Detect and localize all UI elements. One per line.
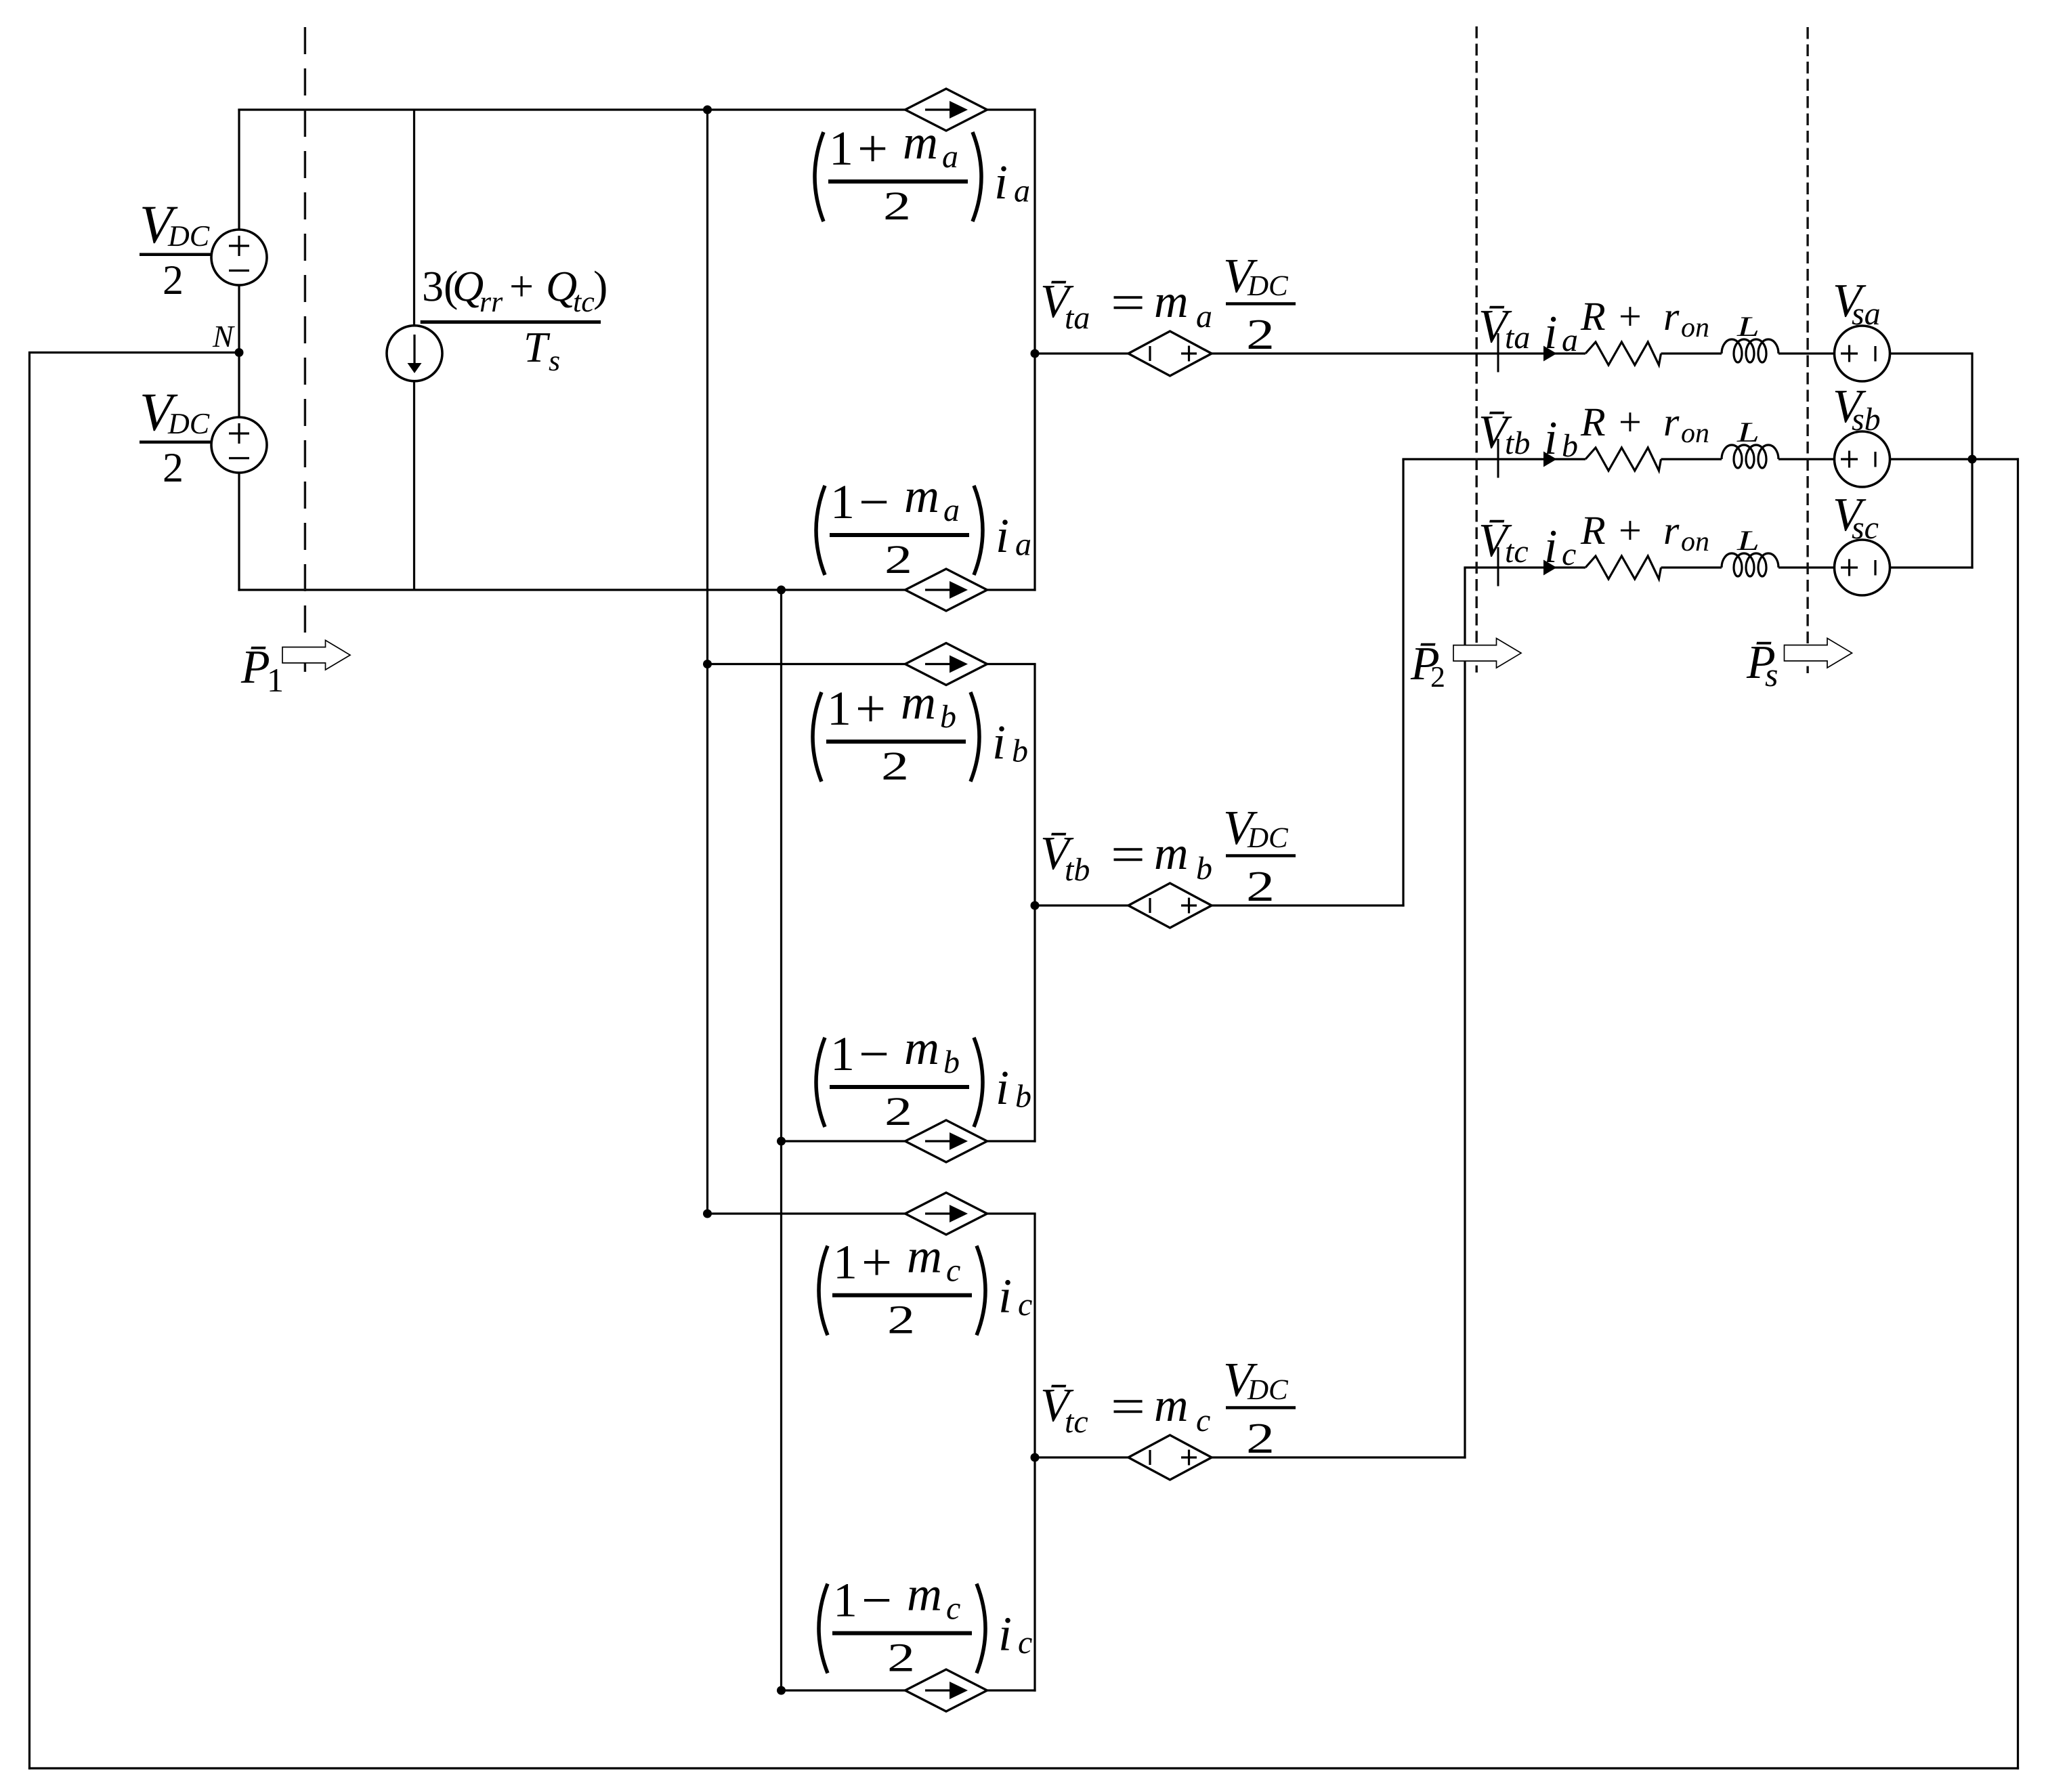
svg-text:−: − <box>859 1025 889 1084</box>
svg-text:2: 2 <box>1246 310 1275 358</box>
dashed boundary line P2 <box>1475 26 1477 673</box>
voltage source VDC/2 lower <box>211 417 267 473</box>
svg-text:m: m <box>904 469 939 523</box>
svg-text:=: = <box>1111 826 1145 883</box>
svg-text:R: R <box>1580 508 1606 553</box>
svg-text:+: + <box>861 1233 892 1293</box>
label P1 <box>240 641 284 699</box>
voltage source Vsc circle <box>1835 540 1890 595</box>
svg-text:on: on <box>1681 526 1709 557</box>
label ib row annotation <box>1544 412 1578 465</box>
svg-text:a: a <box>942 139 958 175</box>
svg-text:2: 2 <box>881 744 909 788</box>
svg-text:L: L <box>1736 417 1760 448</box>
svg-text:a: a <box>1014 173 1030 209</box>
svg-text:−: − <box>859 473 889 532</box>
wire phase-c upper row <box>708 1212 1036 1214</box>
wire outer loop right vertical <box>2017 458 2019 1769</box>
label Vta row annotation <box>1478 301 1530 356</box>
svg-text:r: r <box>1663 508 1680 553</box>
label VDC/2 source 2 <box>140 383 211 491</box>
svg-text:N: N <box>212 319 235 354</box>
dependent voltage source diamond Vtb <box>1128 883 1212 928</box>
svg-text:sc: sc <box>1852 510 1879 546</box>
wire phase-a right leg vertical <box>1033 108 1036 591</box>
svg-text:=: = <box>1111 1378 1145 1435</box>
wire outer loop left vertical <box>28 351 30 1770</box>
junction b-lower row junction dot <box>777 1137 786 1146</box>
svg-text:c: c <box>1018 1625 1032 1661</box>
inductor L phase b <box>1722 445 1778 468</box>
current arrow ia on row <box>1543 346 1557 362</box>
dependent voltage source diamond Vtc <box>1128 1435 1212 1480</box>
wire phase-b lower row <box>782 1140 1036 1142</box>
inductor L phase c <box>1722 553 1778 576</box>
node Vta junction dot <box>1031 349 1040 358</box>
svg-text:tc: tc <box>1505 534 1529 570</box>
voltage source VDC/2 upper <box>211 230 267 285</box>
wire outer loop bottom <box>28 1767 2019 1769</box>
label L phase c <box>1736 526 1760 557</box>
svg-text:b: b <box>1562 428 1578 464</box>
wire Vtc output row <box>1035 1456 1466 1458</box>
svg-text:b: b <box>940 699 956 735</box>
voltage tick mark Vtb row <box>1497 439 1499 478</box>
voltage tick mark Vtc row <box>1497 547 1499 586</box>
wire phase-b right leg vertical <box>1033 664 1036 1143</box>
svg-text:i: i <box>996 1061 1009 1115</box>
wire phase-c row <box>1464 566 1973 568</box>
svg-text:R: R <box>1580 400 1606 444</box>
dependent current source diamond a_up <box>905 89 987 131</box>
wire phase-b riser vertical <box>1402 459 1404 907</box>
svg-text:+: + <box>1619 294 1642 339</box>
label Vsb <box>1833 381 1881 438</box>
svg-text:DC: DC <box>1247 270 1289 302</box>
dependent current source diamond b_up <box>905 643 987 685</box>
label node N <box>212 319 235 354</box>
label ia row annotation <box>1544 307 1578 359</box>
svg-text:tc: tc <box>573 285 595 318</box>
wire Vtb output row <box>1035 904 1405 906</box>
current arrow ic on row <box>1543 560 1557 576</box>
label (1-m_b)/2 i_b for source b_low <box>816 1021 1031 1134</box>
svg-text:a: a <box>1015 527 1031 563</box>
svg-text:): ) <box>593 262 608 310</box>
svg-text:b: b <box>943 1044 960 1080</box>
svg-text:m: m <box>1154 276 1189 328</box>
node Vtc junction dot <box>1031 1453 1040 1462</box>
svg-text:P̄: P̄ <box>240 641 270 694</box>
svg-text:2: 2 <box>1246 862 1275 910</box>
svg-text:b: b <box>1015 1079 1031 1115</box>
wire current-source branch vertical <box>413 110 415 590</box>
svg-text:1: 1 <box>830 1027 855 1081</box>
resistor R+ron phase b <box>1585 448 1661 471</box>
wire DC-link branch vertical <box>238 109 240 591</box>
svg-text:sa: sa <box>1852 296 1881 332</box>
svg-text:+: + <box>857 119 888 179</box>
svg-text:+: + <box>1619 400 1642 444</box>
current source 3(Qrr+Qtc)/Ts <box>387 326 442 381</box>
label (1+m_c)/2 i_c for source c_up <box>819 1229 1032 1342</box>
svg-text:+: + <box>1619 508 1642 553</box>
svg-text:sb: sb <box>1852 402 1881 438</box>
dependent current source diamond c_low <box>905 1669 987 1711</box>
svg-text:=: = <box>1111 274 1145 331</box>
svg-text:ta: ta <box>1065 300 1090 336</box>
svg-text:b: b <box>1012 733 1028 769</box>
svg-text:2: 2 <box>887 1298 915 1342</box>
svg-text:+: + <box>509 262 534 310</box>
wire node N horizontal <box>28 351 239 354</box>
label Ps <box>1746 637 1778 694</box>
svg-text:c: c <box>1018 1287 1032 1323</box>
svg-text:m: m <box>903 115 938 169</box>
label P2 <box>1410 638 1445 694</box>
svg-text:a: a <box>943 492 960 528</box>
label Vsa <box>1833 275 1881 332</box>
svg-text:1: 1 <box>830 475 855 529</box>
junction top bus junction dot <box>703 106 712 114</box>
svg-text:i: i <box>996 509 1009 563</box>
resistor R+ron phase a <box>1585 342 1661 365</box>
svg-text:on: on <box>1681 418 1709 449</box>
svg-text:r: r <box>1663 400 1680 444</box>
svg-text:R: R <box>1580 294 1606 339</box>
junction c-upper row junction dot <box>703 1210 712 1218</box>
label equation Vtc = mc VDC/2 <box>1040 1352 1296 1462</box>
wire bottom negative rail / phase-a lower row <box>238 589 1036 591</box>
svg-text:i: i <box>998 1607 1012 1661</box>
svg-text:r: r <box>1663 294 1680 339</box>
svg-text:i: i <box>998 1269 1012 1323</box>
wire phase-c lower row <box>782 1689 1036 1691</box>
node Vtb junction dot <box>1031 901 1040 910</box>
svg-text:2: 2 <box>163 257 184 303</box>
svg-text:m: m <box>1154 828 1189 880</box>
svg-text:2: 2 <box>885 537 912 582</box>
label R + r_on phase b <box>1580 400 1709 449</box>
junction source bus b row junction dot <box>1968 455 1977 464</box>
svg-text:L: L <box>1736 526 1760 557</box>
label Vsc <box>1833 489 1879 546</box>
label 3(Qrr+Qtc)/Ts <box>421 262 608 377</box>
label (1-m_c)/2 i_c for source c_low <box>819 1567 1032 1680</box>
dependent current source diamond b_low <box>905 1120 987 1162</box>
dashed boundary line P1 <box>304 27 306 672</box>
wire phase-c riser vertical <box>1464 568 1466 1459</box>
svg-text:tc: tc <box>1065 1404 1088 1440</box>
svg-text:i: i <box>1544 307 1557 359</box>
svg-text:1: 1 <box>833 1573 857 1627</box>
svg-text:m: m <box>907 1567 942 1621</box>
wire Vta output row <box>1035 352 1974 354</box>
svg-text:i: i <box>994 155 1008 209</box>
svg-text:2: 2 <box>163 445 184 491</box>
wire inner bus vertical (positive rail feed to legs b,c) <box>706 110 708 1214</box>
svg-text:tb: tb <box>1065 852 1090 888</box>
label Vtc row annotation <box>1478 515 1529 570</box>
wire neutral link b row to outer right <box>1972 458 2019 460</box>
svg-text:i: i <box>1544 521 1557 573</box>
junction b-upper row junction dot <box>703 660 712 668</box>
svg-text:i: i <box>992 715 1006 769</box>
svg-text:−: − <box>861 1571 892 1631</box>
label (1+m_a)/2 i_a for source a_up <box>815 115 1030 228</box>
svg-text:a: a <box>1562 322 1578 358</box>
label VDC/2 source 1 <box>140 195 211 303</box>
svg-text:c: c <box>1562 536 1576 572</box>
svg-text:ta: ta <box>1505 320 1530 356</box>
svg-text:b: b <box>1196 851 1212 887</box>
wire top positive rail <box>238 108 1036 110</box>
svg-text:a: a <box>1196 299 1212 335</box>
svg-text:1: 1 <box>833 1235 857 1289</box>
svg-text:2: 2 <box>885 1089 912 1134</box>
svg-text:DC: DC <box>167 219 210 253</box>
label (1-m_a)/2 i_a for source a_low <box>816 469 1031 582</box>
svg-text:1: 1 <box>827 681 851 735</box>
power arrow P1 <box>282 640 350 670</box>
label R + r_on phase a <box>1580 294 1709 343</box>
svg-text:m: m <box>901 675 936 729</box>
dependent current source diamond c_up <box>905 1193 987 1235</box>
svg-text:s: s <box>1765 656 1778 694</box>
svg-text:1: 1 <box>267 661 284 699</box>
svg-text:2: 2 <box>1246 1414 1275 1462</box>
inductor L phase a <box>1722 339 1778 362</box>
svg-text:DC: DC <box>1247 1374 1289 1406</box>
svg-text:tb: tb <box>1505 425 1530 461</box>
power arrow Ps <box>1785 638 1852 668</box>
svg-text:on: on <box>1681 312 1709 343</box>
svg-text:T: T <box>524 323 551 371</box>
svg-text:i: i <box>1544 412 1557 465</box>
svg-text:2: 2 <box>887 1636 915 1680</box>
label R + r_on phase c <box>1580 508 1709 557</box>
label Vtb row annotation <box>1478 406 1530 461</box>
label equation Vtb = mb VDC/2 <box>1040 801 1296 910</box>
junction c-lower row junction dot <box>777 1686 786 1695</box>
wire phase-b row <box>1402 458 1972 460</box>
voltage source Vsb circle <box>1835 431 1890 487</box>
voltage source Vsa circle <box>1835 326 1890 381</box>
svg-text:m: m <box>907 1229 942 1283</box>
node N junction dot <box>235 348 244 357</box>
svg-text:rr: rr <box>479 285 503 318</box>
label L phase b <box>1736 417 1760 448</box>
label L phase a <box>1736 312 1760 343</box>
svg-text:1: 1 <box>829 121 853 175</box>
junction neg rail / left leg junction dot <box>777 586 786 595</box>
label ic row annotation <box>1544 521 1576 573</box>
power arrow P2 <box>1453 639 1521 668</box>
label equation Vta = ma VDC/2 <box>1040 249 1296 358</box>
svg-text:L: L <box>1736 312 1760 343</box>
svg-text:2: 2 <box>1430 660 1445 694</box>
svg-text:c: c <box>946 1253 960 1289</box>
svg-text:DC: DC <box>167 407 210 440</box>
wire left leg b-c vertical <box>780 590 782 1692</box>
current arrow ib on row <box>1543 452 1557 467</box>
svg-text:s: s <box>549 344 560 377</box>
voltage tick mark Vta row <box>1497 333 1499 372</box>
resistor R+ron phase c <box>1585 556 1661 579</box>
wire phase-c right leg vertical <box>1033 1214 1036 1692</box>
label (1+m_b)/2 i_b for source b_up <box>813 675 1028 788</box>
dashed boundary line Ps <box>1806 27 1808 673</box>
svg-text:DC: DC <box>1247 822 1289 854</box>
dependent voltage source diamond Vta <box>1128 331 1212 376</box>
wire source right bus vertical <box>1971 354 1973 569</box>
svg-text:+: + <box>855 679 886 739</box>
svg-text:2: 2 <box>883 184 911 228</box>
svg-text:m: m <box>1154 1380 1189 1432</box>
svg-text:c: c <box>1196 1403 1210 1438</box>
svg-text:c: c <box>946 1591 960 1627</box>
wire phase-b upper row <box>708 663 1036 665</box>
dependent current source diamond a_low <box>905 569 987 611</box>
svg-text:m: m <box>904 1021 939 1075</box>
